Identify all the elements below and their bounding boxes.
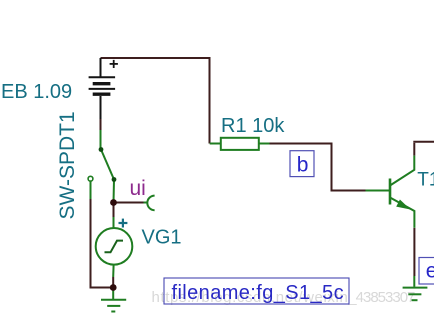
svg-text:R1 10k: R1 10k: [221, 115, 285, 137]
svg-text:SW-SPDT1: SW-SPDT1: [56, 111, 79, 219]
svg-text:VG1: VG1: [142, 227, 182, 249]
svg-text:EB 1.09: EB 1.09: [1, 81, 72, 103]
svg-text:e: e: [426, 260, 434, 283]
svg-text:b: b: [297, 153, 309, 176]
svg-text:filename:fg_S1_5c: filename:fg_S1_5c: [172, 282, 344, 304]
svg-text:_43853307: _43853307: [347, 289, 415, 306]
svg-text:T1: T1: [417, 170, 434, 191]
svg-text:ui: ui: [130, 177, 146, 200]
